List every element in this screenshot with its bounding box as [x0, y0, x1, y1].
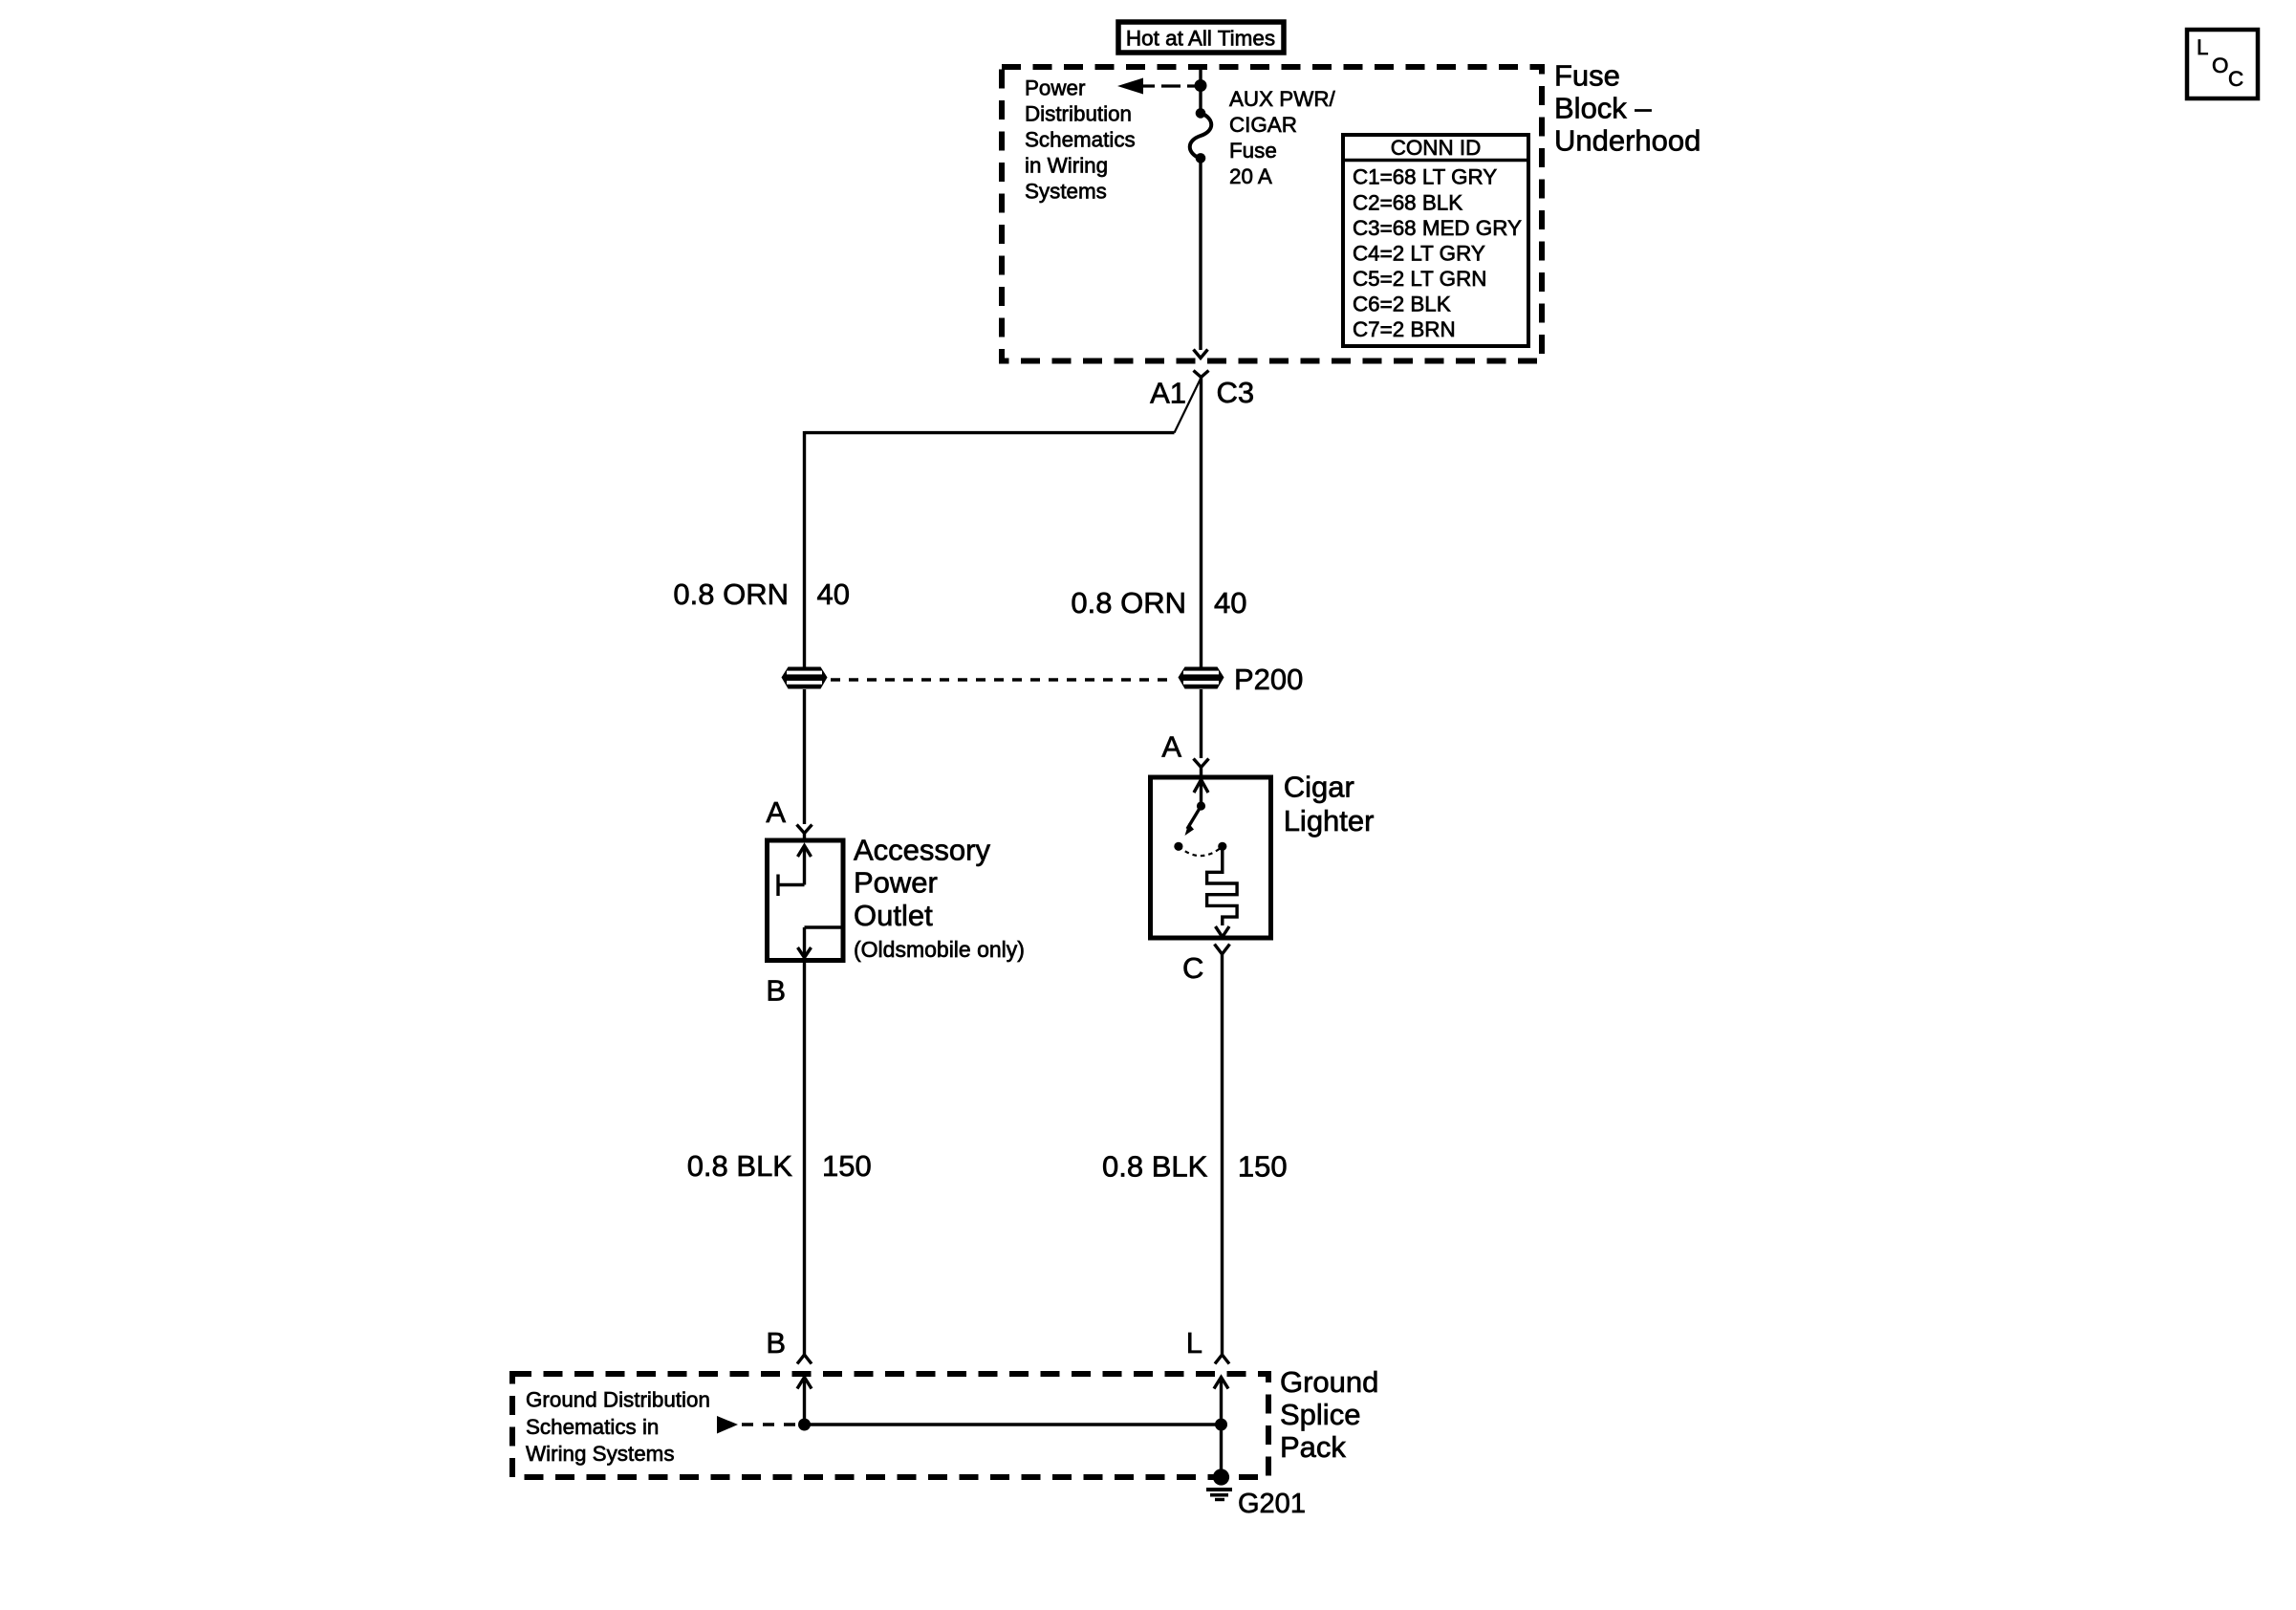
svg-text:CIGAR: CIGAR [1229, 113, 1297, 137]
svg-text:A: A [1161, 730, 1181, 764]
svg-text:Lighter: Lighter [1284, 804, 1375, 838]
svg-text:Ground Distribution: Ground Distribution [526, 1388, 710, 1412]
svg-text:0.8 ORN: 0.8 ORN [1071, 586, 1186, 620]
svg-text:L: L [2197, 35, 2208, 59]
svg-text:Outlet: Outlet [854, 899, 933, 932]
svg-text:Splice: Splice [1280, 1398, 1360, 1431]
svg-text:A: A [766, 795, 786, 829]
svg-text:Power: Power [1025, 76, 1086, 100]
svg-text:0.8 BLK: 0.8 BLK [1102, 1149, 1208, 1183]
svg-text:Distribution: Distribution [1025, 102, 1132, 126]
svg-text:C2=68 BLK: C2=68 BLK [1353, 190, 1462, 214]
svg-text:C7=2 BRN: C7=2 BRN [1353, 317, 1456, 341]
svg-text:40: 40 [817, 577, 850, 611]
svg-text:Accessory: Accessory [854, 834, 990, 867]
svg-text:C: C [2228, 67, 2243, 91]
svg-text:0.8 ORN: 0.8 ORN [673, 577, 789, 611]
svg-text:C4=2 LT GRY: C4=2 LT GRY [1353, 241, 1485, 265]
svg-text:Hot at All Times: Hot at All Times [1126, 26, 1275, 50]
svg-text:C6=2 BLK: C6=2 BLK [1353, 293, 1451, 316]
svg-text:40: 40 [1214, 586, 1246, 620]
svg-text:C5=2 LT GRN: C5=2 LT GRN [1353, 267, 1486, 291]
svg-text:(Oldsmobile only): (Oldsmobile only) [854, 937, 1025, 962]
svg-text:C3: C3 [1217, 376, 1255, 409]
svg-text:C3=68 MED GRY: C3=68 MED GRY [1353, 216, 1522, 240]
svg-text:150: 150 [822, 1149, 872, 1183]
svg-text:C1=68 LT GRY: C1=68 LT GRY [1353, 165, 1497, 189]
svg-text:A1: A1 [1150, 377, 1186, 410]
svg-text:Schematics: Schematics [1025, 128, 1136, 152]
svg-text:C: C [1182, 951, 1203, 985]
svg-text:AUX PWR/: AUX PWR/ [1229, 87, 1335, 111]
svg-text:Wiring Systems: Wiring Systems [526, 1442, 675, 1466]
svg-text:CONN ID: CONN ID [1391, 136, 1482, 160]
svg-text:L: L [1186, 1326, 1202, 1360]
svg-text:Power: Power [854, 866, 938, 900]
svg-text:P200: P200 [1234, 663, 1303, 696]
svg-text:G201: G201 [1238, 1489, 1306, 1519]
svg-text:Fuse: Fuse [1554, 59, 1620, 93]
svg-text:Ground: Ground [1280, 1365, 1378, 1399]
svg-text:Systems: Systems [1025, 180, 1107, 204]
svg-text:Fuse: Fuse [1229, 139, 1277, 163]
svg-text:B: B [766, 974, 786, 1008]
svg-text:20 A: 20 A [1229, 164, 1272, 188]
svg-text:Cigar: Cigar [1284, 770, 1354, 803]
svg-text:Underhood: Underhood [1554, 124, 1700, 158]
svg-text:150: 150 [1238, 1149, 1288, 1183]
svg-text:O: O [2212, 54, 2228, 77]
svg-text:Pack: Pack [1280, 1430, 1346, 1464]
svg-text:Block –: Block – [1554, 92, 1652, 125]
svg-text:0.8 BLK: 0.8 BLK [687, 1149, 793, 1183]
svg-text:Schematics in: Schematics in [526, 1415, 659, 1439]
svg-text:in Wiring: in Wiring [1025, 154, 1108, 178]
svg-text:B: B [766, 1326, 786, 1360]
